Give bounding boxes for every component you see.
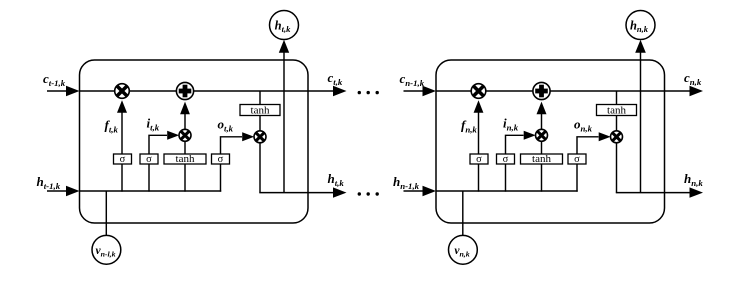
arrowhead: h input arrow at cell 2 left border: [423, 186, 437, 196]
arrowhead: c output arrow of cell 2: [690, 86, 704, 96]
wire: candidate tanh output rising to input multiply: [184, 142, 186, 155]
wire: input-gate sigma output rising then right to multiply: [149, 135, 167, 154]
node: top output circle h_{n,k} of cell 2: [626, 11, 655, 40]
svg-text:σ: σ: [146, 154, 152, 165]
wire: internal hidden-state input bus (bottom horizontal, left segment) of cell 2: [436, 190, 578, 192]
multiply gate: forget (on cell-state line): [115, 84, 130, 99]
wire: input v rising from bottom circle to hidden bus: [462, 191, 464, 235]
sigma box: output gate of cell 2: [568, 154, 586, 165]
wire: input multiply rising to add gate: [184, 114, 186, 130]
wire: forget sigma input from hidden bus: [478, 164, 480, 192]
wire: candidate tanh output rising to input multiply: [541, 142, 543, 155]
arrowhead: h input arrow at cell 1 left border: [66, 186, 80, 196]
arrowhead: into top output circle h: [635, 40, 646, 53]
svg-text:σ: σ: [218, 154, 224, 165]
sigma box: forget gate of cell 1: [114, 154, 132, 165]
wire: output-gate sigma rising then right to output multiply: [577, 137, 599, 154]
wire: internal hidden-state input bus (bottom horizontal, left segment) of cell 1: [80, 190, 222, 192]
wire: input sigma input from hidden bus: [148, 164, 150, 192]
arrowhead: c input arrow at cell 2 left border: [423, 86, 437, 96]
arrowhead: h output arrow of cell 1: [333, 187, 347, 197]
svg-text:tanh: tanh: [607, 104, 626, 116]
multiply gate: forget (on cell-state line): [471, 84, 486, 99]
wire: forget-gate sigma output rising to multiply gate: [478, 109, 480, 154]
wire: branch from cell-state line down into output tanh: [616, 91, 618, 105]
tanh box: output activation of cell 1: [240, 104, 280, 116]
wire: hidden bus branch rising to top output circle: [283, 53, 285, 193]
wire: output multiply down to hidden bus: [616, 143, 618, 193]
add gate: cell-state update: [176, 82, 193, 99]
arrowhead: input branch into add gate: [180, 102, 190, 115]
wire: hidden bus branch rising to top output circle: [640, 53, 642, 193]
wire: hidden-state input line h into cell 2: [404, 190, 425, 192]
svg-text:tanh: tanh: [532, 153, 551, 165]
wire: output multiply down to hidden bus: [259, 143, 261, 193]
arrowhead: h output arrow of cell 2: [690, 187, 704, 197]
svg-text:σ: σ: [503, 154, 509, 165]
wire: hidden-state input line h into cell 1: [47, 190, 68, 192]
sigma box: input gate of cell 2: [497, 154, 515, 165]
svg-text:σ: σ: [574, 154, 580, 165]
svg-text:σ: σ: [120, 154, 126, 165]
tanh box: output activation of cell 2: [597, 104, 637, 116]
multiply gate: output branch: [611, 131, 623, 143]
wire: internal cell-state line (top horizontal) of cell 1: [80, 90, 309, 92]
wire: cell-state input line c into cell 2: [404, 90, 425, 92]
wire: input multiply rising to add gate: [541, 114, 543, 130]
svg-text:tanh: tanh: [251, 104, 270, 116]
arrowhead: c output arrow of cell 1: [333, 86, 347, 96]
wire: output sigma input from hidden bus: [576, 164, 578, 192]
node: bottom input circle v_{n,k} of cell 2: [449, 235, 478, 264]
sigma box: output gate of cell 1: [212, 154, 230, 165]
LSTM cell 2 body (rounded rectangle): [436, 60, 665, 223]
LSTM cell 1 body (rounded rectangle): [80, 60, 309, 223]
multiply gate: input branch: [536, 129, 548, 141]
wire: internal cell-state line (top horizontal) of cell 2: [436, 90, 665, 92]
arrowhead: input gate i into multiply: [524, 131, 536, 140]
svg-text:σ: σ: [476, 154, 482, 165]
wire: hidden-state output line of cell 1: [308, 192, 335, 194]
wire: hidden-state output line of cell 2: [665, 192, 692, 194]
wire: hidden-state output segment from output multiply to right border: [616, 192, 665, 194]
wire: output-gate sigma rising then right to output multiply: [221, 137, 243, 154]
wire: output tanh down to output multiply: [259, 116, 261, 132]
wire: candidate tanh input from hidden bus: [541, 164, 543, 192]
wire: input v rising from bottom circle to hidden bus: [105, 191, 107, 235]
tanh box: candidate activation of cell 1: [164, 153, 206, 165]
arrowhead: c input arrow at cell 1 left border: [66, 86, 80, 96]
wire: forget sigma input from hidden bus: [121, 164, 123, 192]
wire: output sigma input from hidden bus: [220, 164, 222, 192]
arrowhead: output gate o into multiply: [242, 132, 254, 141]
wire: hidden-state output segment from output multiply to right border: [259, 192, 308, 194]
arrowhead: input branch into add gate: [537, 102, 547, 115]
node: top output circle h_{t,k} of cell 1: [270, 11, 299, 40]
add gate: cell-state update: [533, 82, 550, 99]
wire: branch from cell-state line down into output tanh: [259, 91, 261, 105]
wire: input sigma input from hidden bus: [505, 164, 507, 192]
sigma box: forget gate of cell 2: [470, 154, 488, 165]
wire: forget-gate sigma output rising to multiply gate: [121, 109, 123, 154]
wire: cell-state output line of cell 1: [308, 90, 335, 92]
node: bottom input circle v_{n-l,k} of cell 1: [92, 235, 121, 264]
sigma box: input gate of cell 1: [140, 154, 158, 165]
arrowhead: output gate o into multiply: [599, 132, 611, 141]
wire: cell-state input line c into cell 1: [47, 90, 68, 92]
svg-text:tanh: tanh: [176, 153, 195, 165]
wire: cell-state output line of cell 2: [665, 90, 692, 92]
node: ellipsis dots on hidden-state path between cells: [358, 192, 379, 195]
multiply gate: input branch: [179, 129, 191, 141]
arrowhead: into top output circle h: [279, 40, 289, 53]
arrowhead: input gate i into multiply: [167, 131, 179, 140]
wire: input-gate sigma output rising then right to multiply: [506, 135, 524, 154]
node: ellipsis dots on cell-state path between cells: [358, 91, 379, 94]
wire: candidate tanh input from hidden bus: [184, 164, 186, 192]
tanh box: candidate activation of cell 2: [521, 153, 563, 165]
arrowhead: forget gate f into multiply: [117, 100, 127, 113]
wire: output tanh down to output multiply: [616, 116, 618, 132]
multiply gate: output branch: [254, 131, 266, 143]
arrowhead: forget gate f into multiply: [474, 100, 484, 113]
